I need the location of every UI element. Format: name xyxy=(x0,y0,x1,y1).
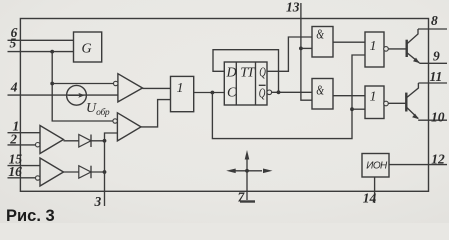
label Uobr xyxy=(86,101,110,118)
svg-text:5: 5 xyxy=(10,36,17,51)
svg-text:&: & xyxy=(316,83,324,98)
pin 7 label xyxy=(238,190,246,205)
pin 1 label xyxy=(13,119,20,134)
svg-text:ИОН: ИОН xyxy=(366,161,388,172)
comparator K2 xyxy=(117,113,141,141)
wire K1 out xyxy=(143,87,171,89)
wire feedback Qbar to D xyxy=(213,50,279,93)
diode V2 xyxy=(79,166,91,179)
pin 6 label xyxy=(11,25,18,40)
svg-text:14: 14 xyxy=(363,190,377,205)
pin 9 label xyxy=(433,48,440,63)
wire AND1 out xyxy=(333,41,365,43)
wire pin 14 xyxy=(374,177,376,203)
wire pin 9 xyxy=(419,62,447,64)
svg-text:1: 1 xyxy=(177,81,184,96)
wire K2 lower input xyxy=(105,133,118,141)
IC body border xyxy=(20,19,428,192)
OR gate D3 "1" xyxy=(365,86,384,119)
wire K2 out to OR1 xyxy=(141,100,171,127)
wire A1 to diode V1 xyxy=(64,140,105,142)
node branch to comparator inverting input xyxy=(50,82,54,86)
voltage reference ION xyxy=(362,154,389,178)
wire OR1 out to C xyxy=(194,92,225,94)
flip-flop TT xyxy=(224,62,267,105)
wire pin 2 xyxy=(8,144,36,146)
comparator A2 xyxy=(40,158,64,186)
svg-text:C: C xyxy=(227,86,237,101)
svg-text:12: 12 xyxy=(431,152,445,167)
wire pin 8 xyxy=(418,28,447,30)
svg-text:13: 13 xyxy=(286,0,300,14)
pin 12 label xyxy=(431,152,445,167)
wire pin 10 xyxy=(418,119,447,121)
pin 8 label xyxy=(431,13,438,28)
wire pin 15 xyxy=(8,165,41,167)
wire A2 to diode V2 xyxy=(64,171,105,173)
pin 4 label xyxy=(10,80,18,95)
pin 14 label xyxy=(363,190,377,205)
svg-text:D: D xyxy=(226,65,237,80)
OR gate D2 "1" xyxy=(365,32,384,67)
caption xyxy=(6,207,55,225)
wire Q to AND1 xyxy=(267,37,312,71)
svg-text:1: 1 xyxy=(370,89,377,104)
svg-text:16: 16 xyxy=(8,164,22,179)
pin 5 label xyxy=(10,36,17,51)
wire feedback branch to OR3 xyxy=(352,108,365,110)
reference source Uobr circle xyxy=(67,85,87,105)
svg-text:Q: Q xyxy=(259,86,266,101)
wire AND2 out xyxy=(333,95,365,97)
inverting bubble K1 xyxy=(114,81,118,85)
wire pin 11 xyxy=(418,82,447,84)
OR gate D1 "1" xyxy=(171,76,194,111)
node feedback to OR3 xyxy=(350,107,354,111)
node pin13 to AND1 xyxy=(299,47,303,51)
wire pin 13 xyxy=(301,3,312,100)
feedback wire from C-node to OR gates xyxy=(212,55,365,139)
diode V1 xyxy=(79,135,91,148)
comparator K1 xyxy=(118,74,143,102)
wire pin13 branch to AND1 xyxy=(301,47,312,49)
Qbar output bubble xyxy=(267,90,272,95)
wire branch to inverting input xyxy=(52,83,113,85)
svg-text:4: 4 xyxy=(10,80,18,95)
svg-text:Рис. 3: Рис. 3 xyxy=(6,207,55,223)
svg-text:3: 3 xyxy=(94,194,102,209)
comparator A1 xyxy=(40,126,64,154)
pin 13 label xyxy=(286,0,300,14)
node Qbar feedback xyxy=(277,90,281,94)
wire OR3 out to base Q2 xyxy=(388,102,407,104)
inverting bubble K2 xyxy=(113,119,117,123)
node diode junction 2 xyxy=(103,170,107,174)
inverting bubble A1 xyxy=(36,143,40,147)
transistor Q1 xyxy=(407,29,420,63)
wire OR2 out to base Q1 xyxy=(388,48,407,50)
OR3 output bubble xyxy=(384,101,389,106)
AND gate DD2 "&" xyxy=(312,79,333,110)
svg-text:&: & xyxy=(316,28,324,43)
svg-text:2: 2 xyxy=(9,131,17,146)
wire pin 16 xyxy=(8,177,36,179)
OR2 output bubble xyxy=(384,47,389,52)
pin 7 terminal bar xyxy=(240,200,255,202)
transistor Q2 xyxy=(406,83,418,119)
node on pin5 wire xyxy=(50,50,54,54)
pin 11 label xyxy=(430,69,443,84)
generator G xyxy=(74,32,102,62)
AND gate DD1 "&" xyxy=(312,27,333,58)
svg-text:11: 11 xyxy=(430,69,443,84)
pin 2 label xyxy=(9,131,17,146)
svg-text:9: 9 xyxy=(433,48,440,63)
svg-text:Q: Q xyxy=(259,65,266,80)
node diode junction xyxy=(103,139,107,143)
pin 10 label xyxy=(431,110,445,125)
wire pin 4 through source to comparator xyxy=(8,94,118,96)
pin 3 label xyxy=(94,194,102,209)
pin 15 label xyxy=(9,152,23,167)
wire pin 6 to G xyxy=(8,39,74,41)
svg-text:8: 8 xyxy=(431,13,438,28)
pin 16 label xyxy=(8,164,22,179)
wire pin 3 xyxy=(104,141,106,206)
svg-text:G: G xyxy=(82,42,92,57)
inverting bubble A2 xyxy=(36,176,40,180)
wire Qbar to AND2 xyxy=(272,91,312,93)
svg-text:1: 1 xyxy=(370,39,377,54)
wire pin 12 xyxy=(389,164,447,166)
wire pin 5 to G xyxy=(8,51,74,53)
substrate symbol with arrows xyxy=(226,150,272,200)
svg-text:10: 10 xyxy=(431,110,445,125)
wire pin5-node down xyxy=(52,52,115,121)
wire pin 1 xyxy=(8,132,41,134)
node feedback tap xyxy=(211,91,215,95)
